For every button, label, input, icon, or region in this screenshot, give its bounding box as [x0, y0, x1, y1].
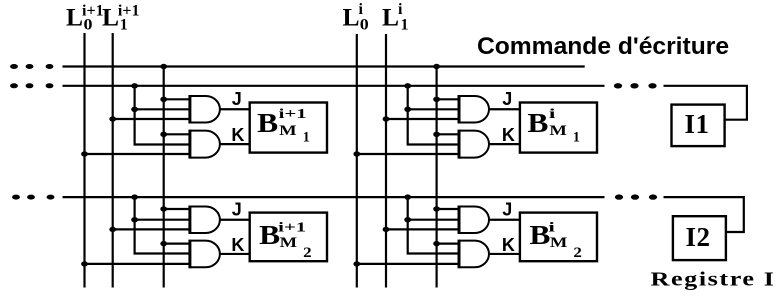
wire: K gate output to flip-flop, cell i+1 row 2	[220, 253, 250, 255]
value label B_M1^(i+1)	[257, 107, 310, 146]
svg-text:K: K	[502, 125, 515, 145]
flip-flop B_M2^(i) box, cell i row 2	[520, 213, 597, 262]
AND gate: J input gate, cell i row 2	[459, 207, 489, 234]
AND gate: J input gate, cell i+1 row 2	[190, 207, 220, 234]
junction: write bus / drop line, cell i+1	[160, 64, 167, 69]
wire: J gate output to flip-flop, cell i+1 row 1	[220, 108, 250, 110]
node: right ellipsis dots line2	[614, 83, 657, 88]
wire: J gate bottom input from L1^(i), row 1	[386, 118, 459, 120]
register box I2	[673, 216, 726, 260]
junction: L1 line / J bottom input, cell i+1 row 1	[109, 116, 116, 121]
junction: L1 line / J bottom input, cell i row 2	[383, 227, 390, 232]
wire: write command bus (line 1)	[63, 65, 585, 67]
wire: K gate bottom input from L0^(i+1), row 2	[85, 263, 190, 265]
svg-text:i: i	[359, 1, 364, 18]
node: left ellipsis dots line1	[10, 64, 53, 69]
svg-text:0: 0	[360, 17, 369, 34]
junction: drop line / J top input, cell i row 1	[433, 97, 440, 102]
wire: K gate output to flip-flop, cell i+1 row 1	[220, 143, 250, 145]
AND gate: K input gate, cell i row 1	[459, 131, 489, 158]
wire: J gate top input (write cmd), cell i row 2	[437, 208, 459, 210]
svg-text:M: M	[550, 235, 568, 251]
junction: L0 line / K bottom input, cell i row 1	[353, 151, 360, 156]
wire: vertical line L0^(i+1)	[83, 33, 85, 288]
node L1^i label	[382, 1, 409, 34]
junction: feedback branch / J middle input, cell i row 2	[404, 217, 411, 222]
svg-text:2: 2	[303, 245, 312, 261]
junction: drop line / K top input, cell i+1 row 2	[160, 241, 167, 246]
wire: feedback branch vertical+elbow to K gate, cell i+1 row 1	[135, 86, 190, 145]
wire: row-2 feedback bus (line 3)	[63, 196, 605, 198]
svg-text:i+1: i+1	[278, 221, 306, 236]
flip-flop B_M2^(i+1) box, cell i+1 row 2	[250, 213, 327, 262]
svg-text:M: M	[549, 123, 567, 139]
junction: drop line / J top input, cell i+1 row 1	[160, 97, 167, 102]
wire: K gate output to flip-flop, cell i row 1	[489, 143, 520, 145]
svg-text:J: J	[232, 89, 242, 109]
junction: drop line / J top input, cell i+1 row 2	[160, 206, 167, 211]
svg-text:1: 1	[303, 130, 310, 146]
wire: feedback loop from I1 to row-1 bus	[664, 86, 747, 120]
value label B_M2^(i)	[529, 219, 582, 261]
svg-text:i: i	[548, 221, 555, 236]
junction: drop line / K top input, cell i+1 row 1	[160, 132, 167, 137]
junction: drop line / K top input, cell i row 1	[433, 132, 440, 137]
junction: feedback branch / J middle input, cell i+1 row 2	[131, 217, 138, 222]
svg-text:J: J	[502, 200, 512, 220]
junction: feedback bus / branch, cell i+1 row 2	[131, 194, 138, 199]
wire: feedback branch vertical+elbow to K gate, cell i+1 row 2	[135, 197, 190, 253]
wire: J gate top input (write cmd), cell i+1 row 2	[164, 208, 190, 210]
svg-text:L: L	[102, 3, 119, 32]
svg-text:B: B	[257, 107, 278, 138]
wire: vertical line L1^(i+1)	[112, 33, 114, 288]
value label B_M2^(i+1)	[259, 219, 312, 261]
wire: feedback loop from I2 to row-2 bus	[664, 197, 744, 232]
node: right ellipsis dots line3	[615, 194, 657, 199]
junction: drop line / K top input, cell i row 2	[433, 241, 440, 246]
junction: feedback bus / branch, cell i row 2	[404, 194, 411, 199]
AND gate: K input gate, cell i+1 row 1	[190, 131, 220, 158]
wire: J gate middle input (feedback), cell i row 1	[408, 108, 459, 110]
svg-text:1: 1	[573, 130, 580, 146]
wire: feedback branch vertical+elbow to K gate, cell i row 1	[408, 86, 459, 145]
svg-text:0: 0	[84, 17, 93, 34]
wire: J gate bottom input from L1^(i+1), row 2	[113, 228, 190, 230]
junction: drop line / J top input, cell i row 2	[433, 206, 440, 211]
svg-text:i+1: i+1	[279, 107, 307, 122]
wire: J gate middle input (feedback), cell i+1 row 1	[135, 108, 190, 110]
wire: vertical line L0^(i)	[356, 34, 358, 288]
wire: write-command drop line, cell i	[436, 67, 438, 288]
svg-text:L: L	[382, 3, 399, 32]
node L1^(i+1) label	[102, 3, 139, 34]
svg-text:B: B	[527, 107, 548, 138]
junction: feedback bus / branch, cell i+1 row 1	[131, 83, 138, 88]
AND gate: J input gate, cell i row 1	[459, 96, 489, 123]
node L0^i label	[343, 1, 369, 34]
wire: J gate top input (write cmd), cell i+1 row 1	[164, 98, 190, 100]
svg-text:K: K	[502, 235, 515, 255]
svg-text:i: i	[398, 1, 403, 18]
svg-text:M: M	[280, 235, 298, 251]
svg-text:I2: I2	[686, 222, 711, 252]
node: left ellipsis dots line3	[12, 195, 54, 200]
wire: K gate bottom input from L0^(i), row 2	[357, 263, 459, 265]
junction: L0 line / K bottom input, cell i+1 row 1	[81, 151, 88, 156]
svg-text:1: 1	[401, 17, 409, 34]
wire: J gate bottom input from L1^(i), row 2	[386, 228, 459, 230]
node: left ellipsis dots line2	[10, 83, 53, 88]
svg-text:i: i	[549, 107, 556, 122]
svg-text:J: J	[502, 89, 512, 109]
svg-text:L: L	[343, 3, 360, 32]
value label B_M1^(i)	[527, 107, 580, 146]
junction: L0 line / K bottom input, cell i+1 row 2	[81, 261, 88, 266]
svg-text:B: B	[259, 219, 280, 250]
flip-flop B_M1^(i) box, cell i row 1	[520, 103, 597, 153]
junction: feedback branch / J middle input, cell i+1 row 1	[131, 107, 138, 112]
wire: K gate top input (write cmd), cell i+1 row 2	[164, 243, 190, 245]
wire: K gate top input (write cmd), cell i row 1	[437, 133, 459, 135]
svg-text:K: K	[231, 125, 244, 145]
node L0^(i+1) label	[66, 3, 104, 34]
wire: J gate output to flip-flop, cell i row 1	[489, 108, 520, 110]
wire: row-1 feedback bus (line 2)	[63, 85, 605, 87]
wire: K gate top input (write cmd), cell i+1 row 1	[164, 133, 190, 135]
svg-text:K: K	[231, 235, 244, 255]
wire: J gate output to flip-flop, cell i row 2	[489, 219, 520, 221]
register box I1	[672, 105, 725, 147]
svg-text:Commande d'écriture: Commande d'écriture	[477, 33, 729, 60]
svg-text:L: L	[66, 3, 83, 32]
svg-text:B: B	[529, 219, 550, 250]
svg-text:Registre I: Registre I	[651, 269, 776, 291]
junction: feedback branch / J middle input, cell i row 1	[404, 107, 411, 112]
wire: K gate bottom input from L0^(i+1), row 1	[85, 153, 190, 155]
junction: write bus / drop line, cell i	[433, 64, 440, 69]
svg-text:J: J	[232, 200, 242, 220]
wire: J gate output to flip-flop, cell i+1 row 2	[220, 219, 250, 221]
wire: vertical line L1^(i)	[385, 34, 387, 288]
junction: feedback bus / branch, cell i row 1	[404, 83, 411, 88]
wire: K gate bottom input from L0^(i), row 1	[357, 153, 459, 155]
wire: feedback branch vertical+elbow to K gate, cell i row 2	[408, 197, 459, 253]
wire: J gate middle input (feedback), cell i+1 row 2	[135, 219, 190, 221]
junction: L1 line / J bottom input, cell i+1 row 2	[109, 227, 116, 232]
junction: L0 line / K bottom input, cell i row 2	[353, 261, 360, 266]
wire: J gate top input (write cmd), cell i row 1	[437, 98, 459, 100]
wire: J gate bottom input from L1^(i+1), row 1	[113, 118, 190, 120]
svg-text:2: 2	[573, 245, 582, 261]
wire: J gate middle input (feedback), cell i row 2	[408, 219, 459, 221]
svg-text:I1: I1	[685, 109, 710, 139]
junction: L1 line / J bottom input, cell i row 1	[383, 116, 390, 121]
flip-flop B_M1^(i+1) box, cell i+1 row 1	[250, 103, 327, 153]
wire: K gate top input (write cmd), cell i row 2	[437, 243, 459, 245]
AND gate: J input gate, cell i+1 row 1	[190, 96, 220, 123]
AND gate: K input gate, cell i+1 row 2	[190, 241, 220, 268]
wire: write-command drop line, cell i+1	[163, 67, 165, 288]
AND gate: K input gate, cell i row 2	[459, 241, 489, 268]
svg-text:M: M	[279, 123, 297, 139]
wire: K gate output to flip-flop, cell i row 2	[489, 253, 520, 255]
svg-text:1: 1	[120, 17, 128, 34]
